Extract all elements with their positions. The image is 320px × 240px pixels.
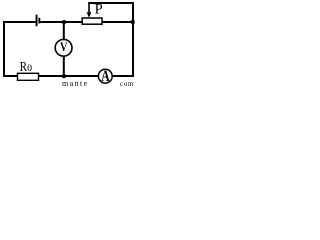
battery B1 short thick plate [38,18,40,24]
svg-text:R: R [20,59,27,74]
svg-text:0: 0 [27,63,32,74]
wire: bottom left segment [3,75,18,77]
svg-text:A: A [101,68,110,85]
node: junction bottom of voltmeter branch [62,74,65,78]
wire: rheostat right lead to right wire [102,21,134,23]
rheostat P box [82,18,102,24]
wire: voltmeter branch upper [63,22,65,40]
battery B1 long plate [36,15,38,27]
svg-text:V: V [60,39,68,54]
svg-text:mante: mante [62,79,89,87]
wire: bottom right segment [112,75,134,77]
rheostat slider arrow stem [88,3,90,14]
wire: left vertical [3,21,5,77]
node: junction right wire / rheostat lead [131,20,135,24]
node: junction top of voltmeter branch [62,20,66,24]
wire: battery to rheostat box [40,21,82,23]
wire: top-left horizontal from corner to battery [3,21,36,23]
wire: slider top horizontal to right wire [88,2,134,4]
ammeter A circle [98,69,112,83]
resistor R0 box [18,73,39,80]
rheostat slider arrowhead [87,12,92,18]
wire: voltmeter branch lower [63,56,65,77]
voltmeter V circle [55,39,72,56]
svg-text:P: P [95,2,103,18]
svg-text:com: com [120,81,134,87]
wire: bottom middle segment [39,75,100,77]
wire: right vertical [132,2,134,77]
